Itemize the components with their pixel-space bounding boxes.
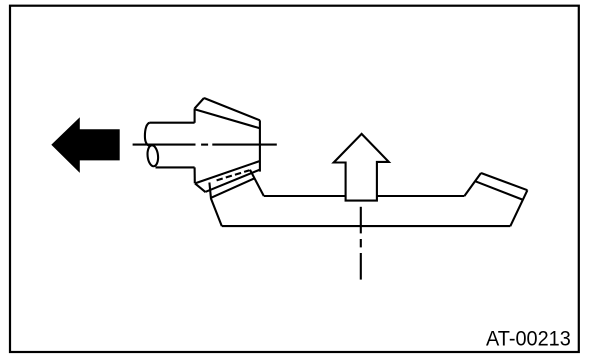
cone right edge (259, 120, 261, 171)
bracket top line left segment (264, 195, 347, 197)
bracket right slant edge (510, 190, 527, 226)
tube top line (150, 122, 195, 124)
bracket hidden edge dashed (217, 170, 250, 180)
vertical centerline dash lower (360, 253, 362, 280)
bracket top line right segment (377, 195, 464, 197)
bracket tab left edge (209, 183, 221, 227)
black arrow pointing left (51, 117, 119, 173)
bracket tab bottom edge (211, 178, 254, 197)
cone peak edge (195, 98, 204, 108)
bracket bottom line (222, 225, 511, 227)
tube left arc (145, 123, 150, 146)
vertical centerline dot (360, 239, 362, 247)
bracket tip outer edge (481, 173, 527, 190)
horizontal centerline dash long (133, 144, 196, 146)
tube bottom line (156, 166, 195, 168)
bracket crease diagonal (250, 170, 264, 196)
cone flange bottom line (206, 170, 260, 192)
cone top band upper line (204, 98, 260, 120)
tube end ellipse (147, 145, 160, 167)
svg-text:AT-00213: AT-00213 (486, 327, 571, 351)
bracket tip inner edge (475, 181, 522, 199)
cone left edge upper (194, 108, 196, 122)
cone left edge lower (194, 167, 196, 183)
bracket tip left slant (464, 173, 481, 196)
cone top band lower line (195, 109, 260, 128)
cone flange top line (195, 161, 260, 183)
up arrow outline (334, 134, 389, 201)
vertical centerline dash upper (360, 207, 362, 234)
horizontal centerline dot (201, 144, 208, 146)
horizontal centerline dash right (212, 144, 276, 146)
cone flange left cap (195, 183, 206, 192)
